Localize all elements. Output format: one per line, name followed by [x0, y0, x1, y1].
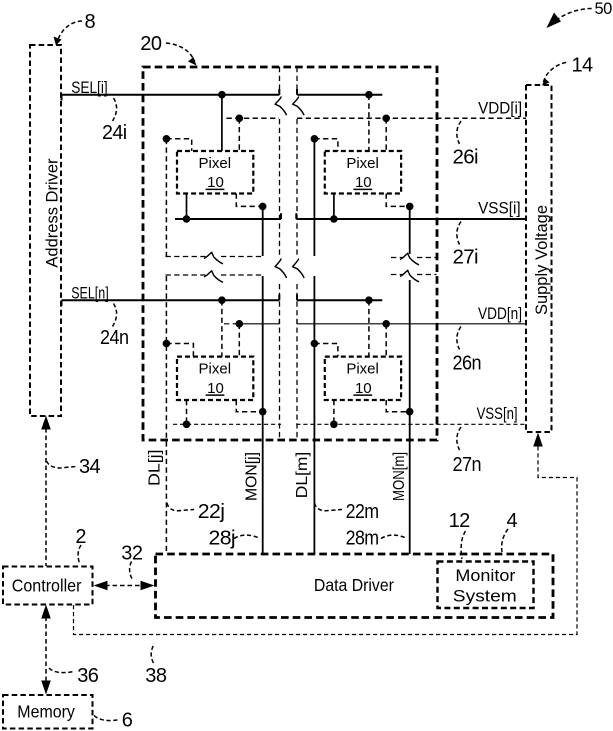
break mark right bottom: [400, 270, 419, 281]
junction dots: [163, 91, 414, 428]
label 36: [49, 665, 99, 687]
svg-text:26n: 26n: [453, 353, 482, 375]
wire MON[j]: [244, 206, 263, 554]
svg-text:SEL[n]: SEL[n]: [71, 283, 109, 302]
label 32: [121, 543, 143, 581]
svg-text:6: 6: [122, 710, 133, 731]
svg-text:Supply Voltage: Supply Voltage: [533, 205, 551, 315]
svg-text:Pixel: Pixel: [199, 361, 232, 378]
P1 DL link: [166, 139, 191, 151]
P1 VDD stub: [238, 118, 240, 151]
label 38: [145, 644, 167, 687]
label 24n: [100, 304, 129, 349]
svg-text:22j: 22j: [198, 501, 225, 523]
connector 32 controller to data driver: [94, 581, 155, 591]
svg-text:DL[m]: DL[m]: [294, 452, 311, 499]
break line vertical B: [296, 67, 298, 440]
break mark B2: [293, 259, 304, 279]
label 4: [502, 510, 518, 552]
P1 links: SEL stub: [221, 95, 223, 151]
label 26n: [453, 327, 482, 375]
connector 34 controller to address driver: [41, 416, 51, 567]
label 22j: [167, 501, 224, 523]
svg-text:27i: 27i: [453, 247, 479, 269]
svg-text:VSS[n]: VSS[n]: [477, 404, 518, 423]
svg-text:Pixel: Pixel: [199, 155, 232, 172]
break mark left top: [204, 252, 223, 263]
svg-text:34: 34: [79, 456, 101, 478]
P4 VSS stub: [333, 400, 335, 424]
wire SEL[n]: [62, 283, 383, 306]
svg-text:36: 36: [77, 665, 99, 687]
break mark left bottom: [204, 271, 223, 282]
P4 links: SEL stub: [368, 300, 370, 356]
svg-text:24n: 24n: [100, 327, 129, 349]
break line row-gap left top: [166, 256, 264, 258]
P4 VDD stub: [385, 324, 387, 357]
svg-text:12: 12: [449, 510, 471, 532]
P4 DL link: [314, 344, 338, 357]
label 28m: [346, 528, 407, 550]
label 14: [542, 54, 593, 85]
P2 links: SEL stub: [368, 95, 370, 151]
label 27i: [453, 222, 479, 269]
svg-text:8: 8: [85, 11, 96, 33]
label 8: [54, 11, 96, 45]
wire VSS[n]: [173, 404, 526, 424]
P3 DL link: [166, 344, 193, 357]
P2 MON link: [386, 194, 410, 207]
svg-text:VDD[n]: VDD[n]: [478, 304, 522, 323]
break line row-gap right top: [391, 257, 437, 259]
break mark B1: [293, 97, 304, 116]
pixel P1 top-left 10: [177, 151, 253, 194]
P2 DL link: [314, 139, 338, 151]
P1 MON link: [236, 194, 262, 207]
svg-text:Monitor: Monitor: [455, 567, 516, 585]
P3 VSS stub: [186, 400, 188, 424]
label 24i: [102, 98, 127, 144]
svg-text:MON[j]: MON[j]: [244, 452, 261, 501]
wire DL[j]: [147, 139, 167, 554]
svg-text:VDD[i]: VDD[i]: [478, 99, 522, 118]
P3 VDD stub: [238, 324, 240, 357]
svg-text:26i: 26i: [453, 146, 479, 168]
wire MON[m]: [391, 206, 410, 554]
svg-text:20: 20: [140, 33, 162, 55]
box pixel array 20: [143, 67, 437, 440]
svg-text:Pixel: Pixel: [346, 361, 379, 378]
label 26i: [453, 121, 479, 168]
svg-text:Address Driver: Address Driver: [44, 158, 62, 268]
box Controller 2: [3, 567, 93, 605]
P3 links: SEL stub: [221, 300, 223, 356]
P2 VSS stub: [333, 194, 335, 220]
svg-text:DL[j]: DL[j]: [147, 449, 164, 486]
label 2: [75, 526, 86, 565]
svg-text:System: System: [453, 588, 517, 606]
label 6: [94, 710, 133, 731]
label 28j: [209, 528, 261, 550]
svg-text:27n: 27n: [453, 454, 482, 476]
box Supply Voltage: [526, 85, 552, 432]
svg-text:38: 38: [145, 665, 167, 687]
svg-text:24i: 24i: [102, 122, 127, 144]
svg-text:VSS[i]: VSS[i]: [478, 199, 520, 218]
wire VSS[i]: [175, 199, 526, 220]
break mark right top: [400, 253, 419, 264]
svg-text:28m: 28m: [346, 528, 379, 550]
svg-text:MON[m]: MON[m]: [391, 452, 408, 501]
P2 VDD stub: [385, 118, 387, 151]
box Monitor System 12: [438, 562, 534, 609]
wire SEL[i]: [62, 78, 383, 101]
svg-text:SEL[i]: SEL[i]: [71, 78, 108, 97]
svg-text:32: 32: [121, 543, 143, 565]
connector 38 controller to supply voltage: [74, 433, 578, 635]
label 27n: [453, 427, 482, 476]
break mark A1: [275, 97, 286, 116]
box Memory 6: [3, 695, 93, 729]
svg-text:Data Driver: Data Driver: [314, 575, 394, 595]
svg-text:Memory: Memory: [17, 702, 75, 722]
label 34: [47, 456, 101, 478]
pixel P4 bottom-right 10: [325, 357, 401, 400]
box Data Driver: [156, 554, 554, 618]
svg-text:Pixel: Pixel: [346, 155, 379, 172]
box Address Driver: [30, 45, 62, 416]
svg-text:28j: 28j: [209, 528, 236, 550]
svg-text:50: 50: [595, 0, 613, 18]
P3 MON link: [236, 400, 262, 412]
svg-text:2: 2: [75, 526, 86, 548]
wire VDD[i]: [227, 99, 527, 119]
P1 VSS stub: [186, 194, 188, 220]
svg-text:22m: 22m: [346, 501, 379, 523]
svg-text:14: 14: [572, 54, 594, 76]
pixel P3 bottom-left 10: [177, 357, 253, 400]
break line row-gap left bottom: [166, 274, 264, 276]
break line vertical A: [279, 67, 281, 440]
label 20: [140, 33, 196, 66]
break line row-gap right bottom: [391, 274, 437, 276]
pixel P2 top-right 10: [325, 151, 401, 194]
P4 MON link: [386, 400, 410, 412]
wire VDD[n]: [224, 304, 526, 324]
wire DL[m]: [294, 139, 314, 554]
svg-text:Controller: Controller: [12, 576, 82, 596]
label 22m: [315, 501, 379, 523]
label 50 arrow: [547, 0, 613, 28]
connector 36 controller to memory: [41, 605, 51, 695]
break mark A2: [275, 259, 286, 279]
svg-text:4: 4: [507, 510, 518, 532]
label 12: [449, 510, 471, 559]
